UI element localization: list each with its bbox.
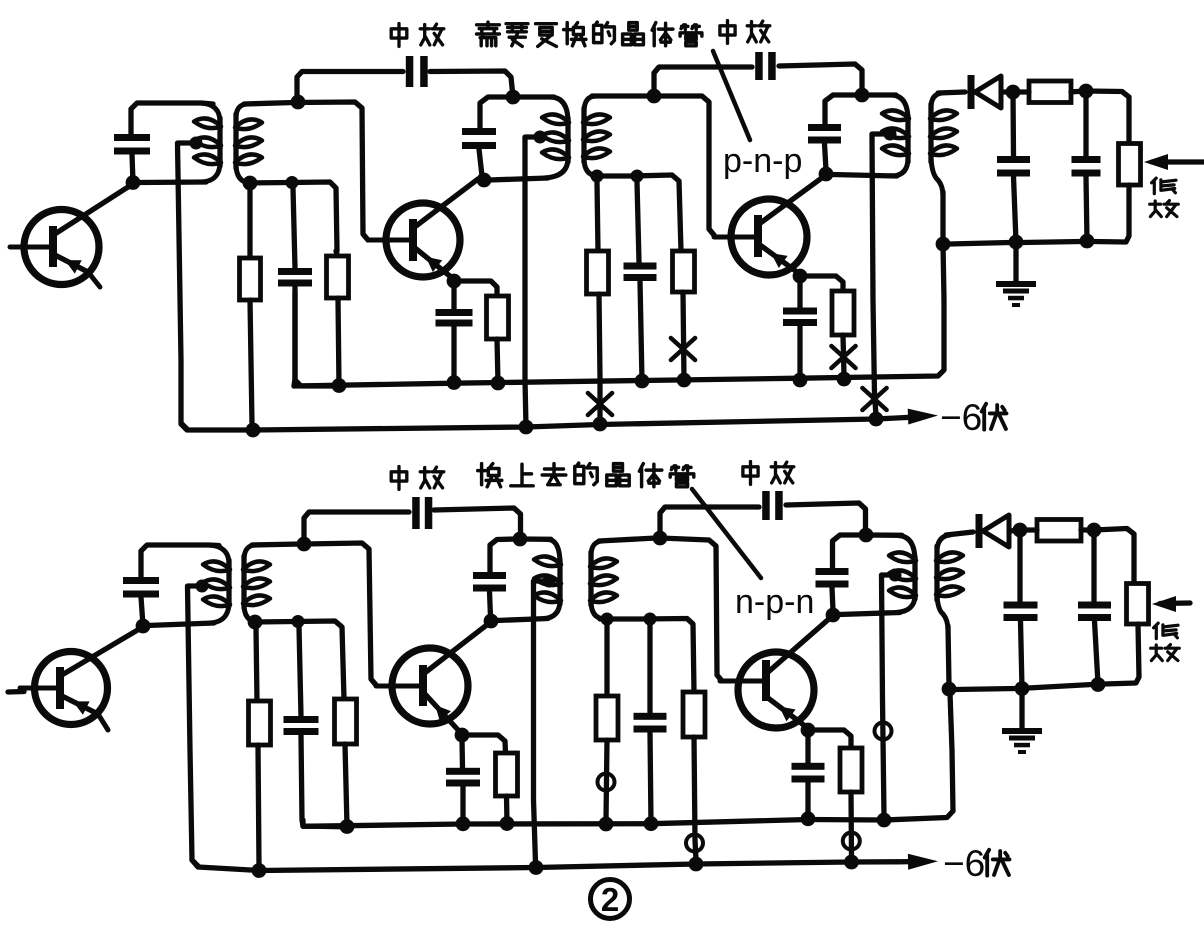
svg-text:p-n-p: p-n-p [723,142,802,180]
svg-text:2: 2 [601,881,619,918]
svg-text:−6: −6 [943,843,985,884]
svg-text:n-p-n: n-p-n [735,583,814,621]
svg-text:−6: −6 [940,397,982,438]
